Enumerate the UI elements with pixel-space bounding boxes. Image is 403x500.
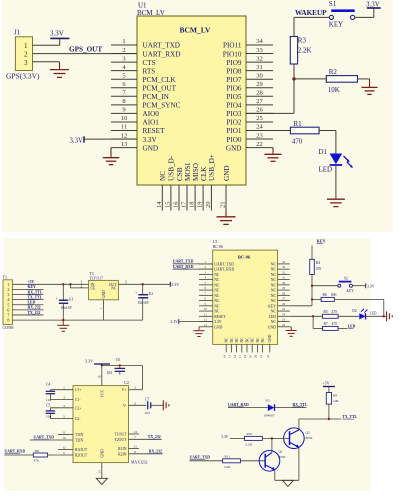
bottom schematic background bbox=[4, 238, 371, 491]
svg-text:NC: NC bbox=[271, 299, 277, 303]
wire Q2 emitter to ground rail bbox=[298, 447, 300, 480]
svg-text:PIO4: PIO4 bbox=[226, 102, 242, 110]
U1 right pin 34 PIO11 bbox=[223, 38, 273, 50]
net label UART_RXD at R2OUT bbox=[5, 450, 26, 454]
svg-text:2.2K: 2.2K bbox=[224, 465, 231, 469]
svg-text:15: 15 bbox=[98, 470, 102, 474]
U4 right pin 28 NC bbox=[271, 291, 290, 297]
top schematic background bbox=[2, 0, 393, 232]
svg-text:3: 3 bbox=[24, 59, 28, 67]
wire J1 pin2 GPS_OUT to U1 pin2 bbox=[33, 53, 138, 55]
label R10 2.2K bbox=[246, 432, 253, 447]
U1 left pin 5 PCM_CLK bbox=[111, 72, 176, 84]
U2 right pin 2 V+ bbox=[122, 386, 137, 393]
svg-text:AIO0: AIO0 bbox=[143, 110, 160, 118]
svg-text:29: 29 bbox=[282, 286, 286, 290]
svg-text:BC-06: BC-06 bbox=[213, 245, 223, 249]
svg-text:RESET: RESET bbox=[143, 127, 166, 135]
label Q2 8050 bbox=[306, 430, 313, 440]
svg-text:14: 14 bbox=[156, 201, 163, 208]
wire R9 to TX_TTL node bbox=[328, 404, 330, 420]
ground at U1 pin22 bbox=[265, 148, 282, 162]
U4 left pin 11 RESET bbox=[199, 312, 226, 318]
svg-text:PIO8: PIO8 bbox=[226, 67, 242, 75]
svg-text:30: 30 bbox=[282, 281, 286, 285]
wire R1IN stub bbox=[129, 447, 139, 449]
wire R2 to ground bbox=[358, 79, 370, 87]
U2 left pin 4 C2+ bbox=[63, 404, 81, 411]
svg-text:3: 3 bbox=[63, 395, 65, 399]
svg-text:TLV1117: TLV1117 bbox=[89, 276, 103, 280]
svg-text:33: 33 bbox=[256, 47, 263, 54]
resistor R5 bbox=[323, 314, 339, 318]
chip title BCM_LV bbox=[180, 26, 212, 35]
wire T2IN UART_TXD bbox=[30, 436, 73, 440]
svg-text:3.3V: 3.3V bbox=[171, 282, 179, 287]
capacitor E1 bbox=[56, 283, 74, 321]
svg-text:26: 26 bbox=[282, 302, 286, 306]
svg-text:PIO3: PIO3 bbox=[226, 110, 242, 118]
U1 bottom pin 21 GND bbox=[220, 165, 231, 210]
ground at D1 bbox=[327, 199, 345, 206]
svg-text:RESET: RESET bbox=[214, 315, 226, 319]
wire P1 pin1 +5V to U3 bbox=[12, 280, 88, 284]
svg-text:10u16V: 10u16V bbox=[61, 306, 73, 310]
U4 bottom pin 14 NC bbox=[222, 337, 228, 358]
U2 left pin 5 C2- bbox=[63, 415, 81, 422]
svg-text:UART_TXD: UART_TXD bbox=[34, 436, 55, 440]
label R5 470 bbox=[324, 310, 338, 314]
svg-text:20: 20 bbox=[205, 202, 212, 209]
svg-text:33: 33 bbox=[282, 265, 286, 269]
wire D3 to RX_TTL bbox=[275, 407, 307, 409]
svg-text:UART_TXD: UART_TXD bbox=[143, 42, 181, 50]
svg-text:PIO11: PIO11 bbox=[223, 42, 242, 50]
svg-text:12: 12 bbox=[204, 318, 208, 322]
svg-text:Q2: Q2 bbox=[306, 430, 310, 434]
svg-text:UART_RXD: UART_RXD bbox=[228, 403, 249, 407]
U4 right pin 22 GND bbox=[268, 323, 290, 329]
wire U4 UART_TXD bbox=[173, 260, 213, 264]
power 3.3V at U1 pin12 bbox=[70, 136, 138, 144]
label R7 470 bbox=[324, 322, 338, 326]
svg-text:KEY: KEY bbox=[317, 239, 326, 244]
U1 bottom pin 18 MISO bbox=[189, 163, 200, 210]
wire R1OUT stub bbox=[58, 449, 73, 451]
svg-text:R3: R3 bbox=[298, 37, 307, 45]
svg-text:104: 104 bbox=[107, 371, 113, 375]
svg-text:S2: S2 bbox=[344, 276, 348, 280]
label R1 470 bbox=[292, 120, 303, 146]
svg-text:NC: NC bbox=[271, 268, 277, 272]
wire to R6 bbox=[312, 298, 321, 300]
U2 VCC GND rotated labels bbox=[98, 375, 105, 458]
svg-text:NC: NC bbox=[214, 289, 220, 293]
U4 bottom pin 16 NC bbox=[233, 337, 239, 358]
svg-text:8050: 8050 bbox=[306, 436, 313, 440]
U4 left pin 2 UART_RXD bbox=[199, 265, 234, 271]
U1 right pin 31 PIO8 bbox=[226, 64, 273, 76]
svg-text:D1: D1 bbox=[319, 148, 328, 156]
wire UART_RXD to R8 bbox=[5, 454, 34, 456]
wire R1 to D1 bbox=[319, 131, 336, 154]
U4 bottom pin 22 GND bbox=[266, 334, 272, 358]
svg-text:R2IN: R2IN bbox=[118, 452, 127, 456]
svg-text:5: 5 bbox=[63, 415, 65, 419]
resistor R3 bbox=[290, 36, 297, 113]
U1 right pin 25 PIO2 bbox=[226, 115, 273, 127]
svg-text:NC: NC bbox=[271, 283, 277, 287]
wire S2 to 3.3V bbox=[352, 285, 365, 287]
svg-text:31: 31 bbox=[256, 64, 263, 71]
regulator U3 bbox=[81, 271, 128, 300]
svg-text:470: 470 bbox=[332, 322, 338, 326]
ground at U4 right GND bbox=[286, 327, 297, 337]
net label KEY top bbox=[317, 239, 326, 244]
U1 left pin 3 CTS bbox=[111, 55, 156, 67]
net label GPS_OUT bbox=[69, 46, 102, 54]
power 3.3V at S1 bbox=[366, 0, 381, 8]
svg-text:TX_232: TX_232 bbox=[148, 435, 161, 439]
switch S1 bbox=[329, 0, 355, 29]
junction KEY/S2 bbox=[311, 285, 313, 287]
svg-text:PCM_SYNC: PCM_SYNC bbox=[143, 102, 181, 110]
svg-text:17: 17 bbox=[181, 201, 188, 208]
label R6 10K bbox=[323, 293, 338, 297]
wire J1 pin1 to 3.3V bbox=[33, 44, 60, 46]
svg-text:NC: NC bbox=[271, 310, 277, 314]
chip title BC-06 bbox=[238, 254, 251, 259]
svg-text:R6: R6 bbox=[323, 293, 327, 297]
svg-text:3.3V: 3.3V bbox=[85, 359, 93, 364]
U4 right pin 31 NC bbox=[271, 276, 290, 282]
svg-text:PIO7: PIO7 bbox=[226, 76, 242, 84]
svg-text:10K: 10K bbox=[328, 86, 340, 94]
svg-text:UART_RXD: UART_RXD bbox=[173, 265, 194, 269]
svg-text:15: 15 bbox=[164, 202, 171, 209]
svg-text:+5V: +5V bbox=[28, 280, 35, 284]
U1 right pin 23 PIO0 bbox=[226, 132, 273, 144]
svg-text:NC: NC bbox=[261, 337, 265, 343]
svg-text:NC: NC bbox=[271, 294, 277, 298]
svg-text:21: 21 bbox=[259, 355, 263, 359]
capacitor C6 bbox=[107, 358, 126, 375]
wire VCC branch to V+ bbox=[101, 364, 143, 389]
ground right of C7 bbox=[163, 400, 169, 410]
svg-text:R4: R4 bbox=[316, 261, 320, 265]
chip U1 body bbox=[137, 16, 246, 185]
U4 right pin 25 NC bbox=[271, 307, 290, 313]
U4 bottom pin 20 NC bbox=[254, 337, 260, 358]
svg-text:PCM_OUT: PCM_OUT bbox=[143, 84, 177, 92]
svg-text:14: 14 bbox=[222, 355, 226, 359]
label R8 470 bbox=[34, 449, 40, 463]
svg-text:U1: U1 bbox=[213, 239, 218, 244]
svg-text:10: 10 bbox=[121, 115, 128, 122]
svg-text:R1IN: R1IN bbox=[118, 447, 127, 451]
svg-text:T3: T3 bbox=[89, 271, 93, 276]
svg-text:9: 9 bbox=[122, 107, 125, 114]
svg-text:34: 34 bbox=[282, 260, 286, 264]
svg-text:24: 24 bbox=[256, 124, 263, 131]
svg-text:7: 7 bbox=[134, 435, 136, 439]
U4 right pin 33 NC bbox=[271, 265, 290, 271]
svg-text:C1+: C1+ bbox=[75, 388, 82, 392]
wire U4 UART_RXD bbox=[173, 265, 213, 269]
power 3.3V at J1 pin 1 bbox=[50, 30, 69, 46]
svg-text:3.3V: 3.3V bbox=[366, 0, 380, 8]
U1 left pin 7 PCM_IN bbox=[111, 90, 170, 102]
svg-text:MOSI: MOSI bbox=[184, 162, 192, 181]
svg-text:11: 11 bbox=[62, 431, 66, 435]
U4 left pin 6 NC bbox=[199, 286, 220, 292]
LED D2 bbox=[359, 309, 367, 320]
svg-text:MAX3232: MAX3232 bbox=[131, 461, 148, 465]
U1 left pin 8 PCM_SYNC bbox=[111, 98, 181, 110]
svg-text:104: 104 bbox=[46, 414, 51, 418]
svg-text:GND: GND bbox=[226, 144, 242, 152]
ground arrow at rail bbox=[282, 480, 293, 486]
svg-text:GND: GND bbox=[268, 325, 276, 329]
svg-text:PIO9: PIO9 bbox=[226, 59, 242, 67]
wire R2IN RX_232 bbox=[129, 450, 163, 454]
wire U3 OUT 3.3V bbox=[118, 283, 170, 285]
U1 bottom pin 16 CSB bbox=[173, 167, 184, 210]
U4 left pin 4 NC bbox=[199, 276, 220, 282]
wire UART_TXD to R11 bbox=[190, 460, 223, 462]
wire P1 pin7 TX_232 bbox=[12, 311, 43, 315]
power +5V at R9 bbox=[323, 381, 336, 393]
U1 bottom pin 17 MOSI bbox=[181, 162, 192, 210]
svg-text:NC: NC bbox=[214, 299, 220, 303]
svg-text:3.3V: 3.3V bbox=[367, 284, 375, 288]
U2 left pin 11 T1IN bbox=[62, 431, 83, 438]
U4 bottom pin 21 NC bbox=[259, 337, 265, 358]
junction LED/R7 bbox=[312, 315, 314, 317]
svg-text:13: 13 bbox=[121, 141, 128, 148]
label R4 470 bbox=[316, 261, 322, 271]
U1 right pin 30 PIO7 bbox=[226, 72, 273, 84]
U1 right pin 22 GND bbox=[226, 141, 273, 153]
svg-text:18: 18 bbox=[243, 355, 247, 359]
svg-text:NC: NC bbox=[214, 283, 220, 287]
U2 right pin 14 T1OUT bbox=[114, 430, 137, 437]
svg-text:1: 1 bbox=[99, 307, 103, 309]
wire Q1 emitter to ground rail bbox=[274, 470, 276, 481]
svg-text:T1OUT: T1OUT bbox=[114, 433, 127, 437]
chip U4 designator BC-06 bbox=[213, 239, 223, 249]
wire TX_TTL bbox=[299, 418, 341, 420]
svg-text:NC: NC bbox=[214, 310, 220, 314]
label R9 10K bbox=[333, 393, 339, 403]
svg-text:NC: NC bbox=[256, 337, 260, 343]
resistor R10 bbox=[245, 436, 263, 440]
label R2 10K bbox=[328, 68, 340, 94]
svg-text:C4: C4 bbox=[46, 382, 51, 386]
U1 left pin 13 GND bbox=[111, 141, 158, 153]
svg-text:16: 16 bbox=[98, 375, 102, 379]
svg-text:2: 2 bbox=[24, 51, 28, 59]
power 3.3V at S2 bbox=[366, 283, 375, 288]
wire D2 to ground bbox=[366, 315, 387, 317]
svg-text:470: 470 bbox=[292, 138, 303, 146]
svg-text:25: 25 bbox=[256, 115, 263, 122]
label CON8 bbox=[3, 325, 14, 330]
svg-text:Q1: Q1 bbox=[279, 450, 283, 454]
svg-text:11: 11 bbox=[121, 124, 127, 131]
svg-text:22: 22 bbox=[282, 323, 286, 327]
svg-text:E2: E2 bbox=[149, 292, 153, 296]
wire U3 GND pin bbox=[99, 300, 103, 320]
svg-text:11: 11 bbox=[204, 312, 207, 316]
svg-text:LED: LED bbox=[348, 324, 356, 328]
svg-text:TX_232: TX_232 bbox=[28, 311, 41, 315]
U4 right pin 29 NC bbox=[271, 286, 290, 292]
switch S2 bbox=[338, 276, 354, 293]
capacitor C5 bbox=[46, 403, 73, 418]
svg-text:2.2K: 2.2K bbox=[246, 443, 253, 447]
U4 bottom pin 17 NC bbox=[238, 337, 244, 358]
label D2 LED bbox=[352, 309, 377, 315]
resistor R7 bbox=[323, 326, 339, 330]
U4 right pin 27 NC bbox=[271, 297, 290, 303]
U2 right pin 7 T2OUT bbox=[114, 435, 136, 442]
svg-text:RX_232: RX_232 bbox=[28, 306, 41, 310]
svg-text:3: 3 bbox=[122, 55, 125, 62]
svg-text:9: 9 bbox=[63, 451, 65, 455]
svg-text:6: 6 bbox=[134, 401, 136, 405]
svg-text:470: 470 bbox=[34, 459, 39, 463]
svg-text:26: 26 bbox=[256, 107, 263, 114]
power 3.3V at U3 OUT bbox=[170, 282, 179, 287]
ground at U1 pin13 bbox=[103, 148, 120, 165]
U2 left pin 1 C1+ bbox=[63, 386, 81, 393]
capacitor E2 bbox=[135, 283, 153, 320]
power 3.3V at R10 bbox=[221, 435, 229, 439]
U4 left pin 1 UART_TXD bbox=[199, 260, 234, 266]
svg-text:WAKEUP: WAKEUP bbox=[295, 9, 327, 17]
svg-text:T2OUT: T2OUT bbox=[114, 438, 127, 442]
svg-text:2: 2 bbox=[134, 386, 136, 390]
label D1 LED bbox=[319, 148, 333, 174]
U4 left pin 7 NC bbox=[199, 291, 220, 297]
svg-text:USB_D+: USB_D+ bbox=[208, 154, 216, 181]
svg-text:C1-: C1- bbox=[75, 398, 81, 402]
svg-text:19: 19 bbox=[248, 355, 252, 359]
svg-text:32: 32 bbox=[282, 270, 286, 274]
svg-text:27: 27 bbox=[282, 297, 286, 301]
svg-text:R11: R11 bbox=[225, 455, 231, 459]
diode D3 bbox=[264, 398, 275, 417]
svg-text:GND: GND bbox=[268, 334, 272, 342]
svg-text:C5: C5 bbox=[46, 403, 51, 407]
svg-text:104: 104 bbox=[46, 398, 51, 402]
wire T2OUT TX_232 bbox=[129, 435, 162, 439]
svg-text:PCM_CLK: PCM_CLK bbox=[143, 76, 177, 84]
U1 right pin 29 PIO6 bbox=[226, 81, 273, 93]
resistor R8 bbox=[33, 453, 47, 457]
U1 bottom pin 14 NC bbox=[156, 171, 167, 211]
power 3.3V at U4 bbox=[170, 319, 212, 324]
U2 right pin 6 V- bbox=[123, 401, 136, 408]
U4 bottom pin 15 NC bbox=[228, 337, 234, 358]
ground at GND rail bbox=[57, 320, 69, 331]
svg-text:NC: NC bbox=[111, 287, 117, 291]
junction KEY/R6 bbox=[311, 298, 313, 300]
svg-text:NC: NC bbox=[214, 304, 220, 308]
chip U2 body MAX3232 bbox=[73, 380, 129, 463]
label GPS(3.3V) bbox=[6, 72, 40, 81]
svg-text:GND: GND bbox=[143, 144, 159, 152]
wire +5V to U3 CE bbox=[69, 283, 88, 288]
svg-text:28: 28 bbox=[256, 90, 263, 97]
wire U4 LED row bbox=[290, 315, 323, 317]
svg-text:C2+: C2+ bbox=[75, 406, 82, 410]
svg-text:C6: C6 bbox=[116, 358, 121, 362]
U1 bottom pin 20 USB_D+ bbox=[205, 154, 216, 210]
wire LED node to R7 bbox=[313, 316, 322, 328]
chip U4 body bbox=[213, 250, 278, 344]
op chip U1 designator bbox=[138, 2, 147, 10]
svg-text:R9: R9 bbox=[333, 393, 337, 397]
svg-text:NC: NC bbox=[271, 320, 277, 324]
svg-text:19: 19 bbox=[197, 202, 204, 209]
svg-text:GND: GND bbox=[214, 325, 222, 329]
wire Q1 collector to node bbox=[271, 438, 273, 452]
wire 3.3V to R10 bbox=[230, 437, 245, 439]
U1 left pin 12 3.3V bbox=[111, 132, 157, 144]
U4 left pin 3 NC bbox=[199, 270, 220, 276]
svg-text:PCM_IN: PCM_IN bbox=[143, 93, 170, 101]
svg-text:3.3V: 3.3V bbox=[170, 320, 178, 324]
U2 left pin 9 R2OUT bbox=[63, 451, 88, 458]
label MAX3232 bbox=[131, 461, 148, 465]
svg-text:NC: NC bbox=[240, 337, 244, 343]
U2 left pin 10 T2IN bbox=[62, 436, 83, 443]
wire R6 to LED node bbox=[334, 299, 384, 316]
wire R7 to LED label bbox=[338, 327, 347, 329]
svg-text:NC: NC bbox=[214, 278, 220, 282]
svg-text:KEY: KEY bbox=[329, 21, 343, 29]
svg-text:16: 16 bbox=[173, 201, 180, 208]
svg-text:30: 30 bbox=[256, 72, 263, 79]
svg-text:GPS(3.3V): GPS(3.3V) bbox=[6, 72, 40, 81]
ground arrow at U2 GND bbox=[96, 478, 107, 484]
svg-text:2: 2 bbox=[81, 284, 83, 288]
ground at J1 pin3 bbox=[50, 70, 69, 78]
U1 left pin 10 AIO1 bbox=[111, 115, 159, 127]
svg-text:R1: R1 bbox=[294, 120, 303, 128]
wire R11 to Q1 base bbox=[240, 460, 265, 462]
svg-text:UART_RXD: UART_RXD bbox=[214, 268, 234, 272]
svg-text:5: 5 bbox=[125, 280, 127, 284]
U4 right pin 24 LED bbox=[269, 312, 290, 318]
resistor R2 bbox=[326, 76, 357, 83]
svg-text:LED: LED bbox=[28, 301, 36, 305]
svg-text:25: 25 bbox=[282, 307, 286, 311]
ground right of D2 bbox=[387, 311, 393, 321]
svg-text:D2: D2 bbox=[352, 309, 357, 313]
U2 left pin 3 C1- bbox=[63, 395, 81, 402]
wire V- to C7 bbox=[129, 404, 147, 406]
transistor Q1 bbox=[259, 451, 280, 472]
U1 right pin 27 PIO4 bbox=[226, 98, 273, 110]
connector J1 bbox=[14, 29, 33, 71]
wire T1OUT stub bbox=[129, 433, 139, 435]
U1 right pin 28 PIO5 bbox=[226, 90, 273, 102]
svg-text:3.3V: 3.3V bbox=[221, 435, 229, 439]
connector P1 bbox=[3, 275, 13, 325]
